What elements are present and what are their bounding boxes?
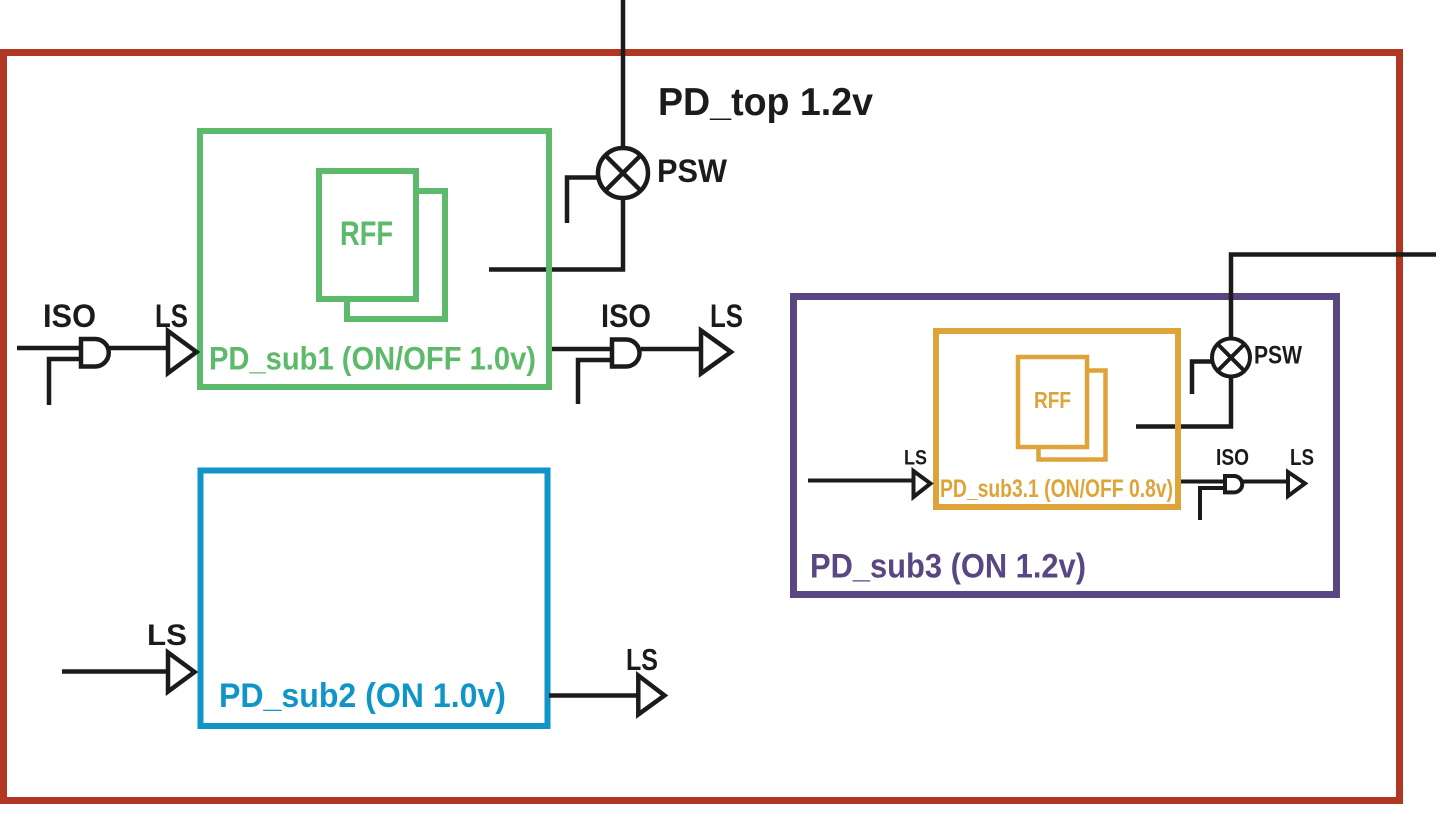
level shifter LS (left of PD_sub1) <box>168 331 197 373</box>
wire VDD feed into PSW (top) <box>621 0 626 151</box>
wire PD_sub3.1 output to ISO (right of PD_sub3.1) <box>1181 480 1225 484</box>
wire ISO to LS (right of PD_sub3.1) <box>1242 480 1288 484</box>
svg-text:PD_sub1 (ON/OFF 1.0v): PD_sub1 (ON/OFF 1.0v) <box>209 341 536 377</box>
retention flip-flop RFF icon (PD_sub3.1) back page <box>1039 371 1106 460</box>
power switch PSW (PD_sub1) <box>598 148 648 198</box>
svg-text:LS: LS <box>626 642 658 677</box>
wire PSW output to PD_sub3.1 <box>1136 375 1231 427</box>
isolation cell ISO (left of PD_sub1) <box>81 339 109 367</box>
wire ISO to LS (left of PD_sub1) <box>109 346 168 351</box>
svg-text:RFF: RFF <box>1034 387 1071 413</box>
wire input to LS (left of PD_sub3.1) <box>808 479 914 483</box>
wire PSW control input <box>567 178 600 224</box>
svg-text:PD_sub3 (ON 1.2v): PD_sub3 (ON 1.2v) <box>810 548 1086 586</box>
level shifter LS (right of PD_sub3.1) <box>1288 472 1305 496</box>
wire PD_sub1 output to ISO (right of PD_sub1) <box>552 347 612 352</box>
isolation cell ISO (right of PD_sub1) <box>612 340 640 367</box>
isolation cell ISO (right of PD_sub3.1) <box>1225 476 1242 492</box>
svg-text:RFF: RFF <box>340 215 393 253</box>
wire ISO control input (right of PD_sub3.1) <box>1200 488 1226 520</box>
wire PSW output to PD_sub1 <box>489 196 623 270</box>
svg-text:ISO: ISO <box>1216 444 1249 470</box>
svg-text:LS: LS <box>1290 444 1314 470</box>
power domain PD_sub2 border (blue) <box>201 471 548 727</box>
svg-text:PSW: PSW <box>657 153 728 189</box>
wire PSW control input (PD_sub3.1) <box>1192 362 1213 395</box>
retention flip-flop RFF icon (PD_sub1) front page <box>319 171 416 299</box>
svg-text:LS: LS <box>904 447 927 470</box>
wire ISO control input (left of PD_sub1) <box>49 359 81 405</box>
wire VDD feed into PSW (PD_sub3.1) <box>1231 255 1436 341</box>
level shifter LS (left of PD_sub3.1) <box>914 471 931 497</box>
level shifter LS (right of PD_sub1) <box>701 331 731 374</box>
retention flip-flop RFF icon (PD_sub3.1) front page <box>1018 357 1087 447</box>
wire ISO to LS (right of PD_sub1) <box>641 347 701 352</box>
wire PD_sub2 output to LS (right of PD_sub2) <box>549 693 640 698</box>
power domain PD_sub1 border (green) <box>200 131 549 387</box>
level shifter LS (right of PD_sub2) <box>638 676 664 715</box>
svg-text:LS: LS <box>710 298 743 334</box>
wire input to LS (left of PD_sub2) <box>62 669 168 674</box>
wire ISO control input (right of PD_sub1) <box>578 360 612 404</box>
power domain PD_sub3 border (purple) <box>794 297 1337 595</box>
level shifter LS (left of PD_sub2) <box>168 653 195 692</box>
wire input to ISO cell (left of PD_sub1) <box>17 346 81 351</box>
svg-text:ISO: ISO <box>43 298 96 334</box>
power domain PD_sub3.1 border (orange) <box>936 331 1178 507</box>
svg-text:PD_sub2 (ON 1.0v): PD_sub2 (ON 1.0v) <box>219 677 506 715</box>
svg-text:PD_top 1.2v: PD_top 1.2v <box>658 81 873 124</box>
svg-text:LS: LS <box>147 619 187 652</box>
svg-text:PSW: PSW <box>1254 342 1302 370</box>
svg-text:PD_sub3.1 (ON/OFF 0.8v): PD_sub3.1 (ON/OFF 0.8v) <box>940 475 1173 503</box>
power switch PSW (PD_sub3.1) <box>1212 339 1250 377</box>
svg-text:LS: LS <box>155 298 188 334</box>
svg-text:ISO: ISO <box>601 298 651 334</box>
retention flip-flop RFF icon (PD_sub1) back page <box>347 191 445 319</box>
